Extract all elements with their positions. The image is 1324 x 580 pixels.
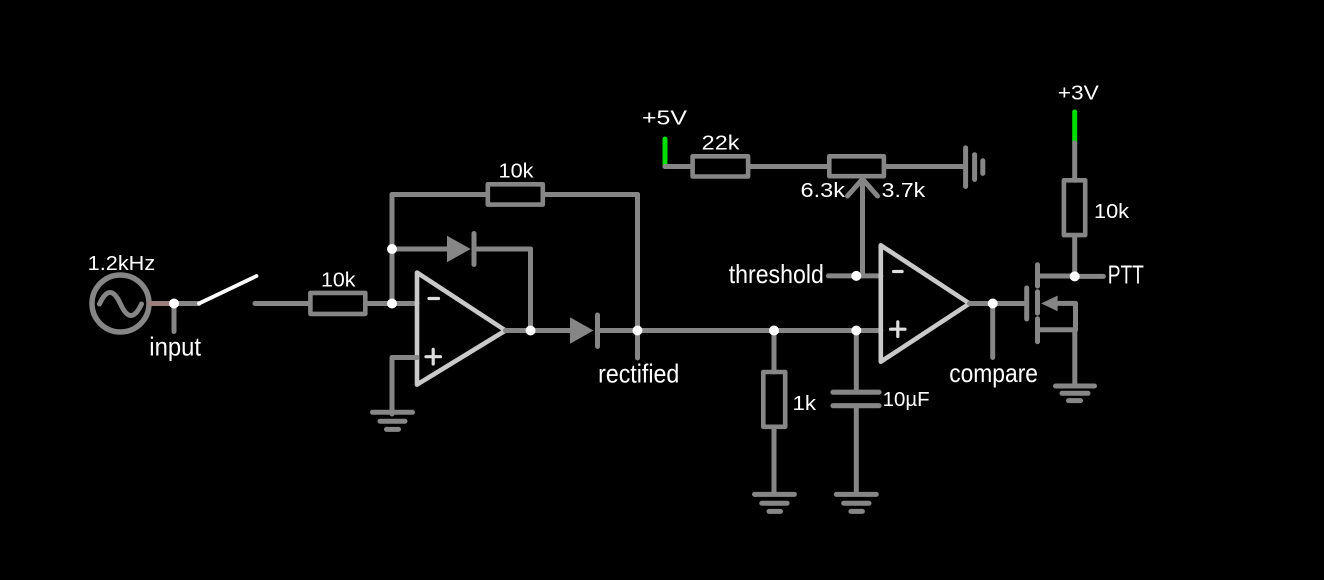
wire +5V to R4 — [665, 164, 690, 169]
wire inverting node to diode D1 — [392, 247, 447, 252]
svg-text:10k: 10k — [321, 270, 357, 292]
svg-text:22k: 22k — [702, 133, 741, 155]
node rectified stub — [635, 331, 640, 359]
ground G3 (below cap) — [836, 494, 876, 511]
Q1 drain stub — [1038, 274, 1075, 279]
node PTT stub — [1075, 274, 1104, 279]
node input stub — [172, 304, 177, 332]
transistor Q1 (n-MOSFET) gate plate — [1024, 288, 1029, 319]
resistor R3 1k — [763, 372, 785, 427]
wire V1 to input node (slight negative voltage tint) — [150, 301, 172, 306]
svg-text:3.7k: 3.7k — [882, 180, 927, 202]
ground G1 (U1 +) — [373, 412, 413, 429]
U2 minus sign — [894, 270, 903, 273]
resistor R1 10k — [310, 293, 365, 314]
wire R1 to inverting node — [367, 301, 417, 306]
wire feedback top right — [545, 192, 638, 197]
wire threshold node to U2 inverting input — [856, 273, 881, 278]
rail +3V green post — [1072, 112, 1077, 143]
node dot U1 output — [526, 326, 536, 336]
capacitor C1 10uF — [833, 392, 879, 406]
node dot PTT — [1070, 271, 1080, 281]
wire Q1 source to ground — [1072, 330, 1077, 384]
svg-text:+5V: +5V — [642, 107, 688, 129]
svg-text:PTT: PTT — [1108, 259, 1144, 289]
svg-text:threshold: threshold — [729, 259, 824, 289]
voltage source V1 1.2kHz — [92, 275, 149, 332]
wire R4 to potentiometer — [750, 164, 827, 169]
node dot input — [169, 299, 179, 309]
svg-text:input: input — [149, 332, 201, 362]
diode D1 (feedback clamp) — [447, 234, 474, 265]
svg-text:1k: 1k — [793, 393, 818, 415]
Q1 body arrow — [1041, 296, 1058, 312]
potentiometer wiper arrow — [848, 179, 878, 276]
ground G5 (rotated, right of pot) — [966, 148, 983, 187]
Q1 source stub — [1038, 327, 1076, 332]
resistor R4 22k — [693, 156, 749, 176]
ground G2 (below 1k) — [755, 494, 795, 511]
svg-text:rectified: rectified — [598, 358, 679, 388]
node dot cap junction — [851, 326, 861, 336]
U2 plus sign — [891, 322, 906, 337]
wire input node to switch pivot — [174, 301, 199, 306]
switch S1 (open lever) — [199, 276, 257, 304]
wire 1k top lead — [772, 331, 777, 373]
rail +5V green post — [663, 139, 668, 167]
node dot inverting input — [387, 299, 397, 309]
wire U2 output to MOSFET gate — [970, 301, 1025, 306]
wire 1k bottom lead — [772, 428, 777, 493]
wire D1 to corner — [476, 247, 531, 252]
ground G4 (below Q1) — [1056, 386, 1095, 401]
U1 minus sign — [429, 297, 439, 300]
Q1 body wire — [1058, 303, 1076, 329]
wire pot right to ground G5 — [886, 164, 963, 169]
wire R5 to PTT node / MOSFET drain — [1072, 236, 1077, 277]
potentiometer P1 body — [829, 156, 884, 176]
svg-text:6.3k: 6.3k — [801, 180, 847, 202]
svg-text:+3V: +3V — [1058, 83, 1100, 105]
wire switch to R1 — [255, 301, 308, 306]
svg-text:1.2kHz: 1.2kHz — [88, 253, 156, 275]
resistor R5 10k — [1064, 180, 1085, 235]
wire rectified rail (D2 to op-amp U2 +) — [600, 328, 881, 333]
op-amp U2 (comparator) — [881, 245, 970, 361]
node compare stub — [990, 304, 995, 358]
node threshold stub — [828, 273, 856, 278]
wire +3V to R5 — [1072, 143, 1077, 180]
node dot inverting top (D1) — [387, 244, 397, 254]
wire corner down to op-amp output — [528, 249, 533, 331]
node dot rectified — [633, 326, 643, 336]
wire inverting node vertical (feedback left leg) — [390, 195, 395, 304]
op-amp U1 — [417, 273, 506, 385]
wire feedback right vertical to rectified node — [635, 195, 640, 331]
U1 plus sign — [426, 349, 441, 364]
node dot threshold — [851, 271, 861, 281]
svg-text:10µF: 10µF — [883, 389, 930, 411]
resistor R2 10k feedback — [488, 184, 543, 204]
Q1 channel dashes — [1035, 265, 1040, 342]
diode D2 (series rectifier) — [570, 315, 598, 347]
wire feedback top left — [392, 192, 486, 197]
node dot compare — [988, 299, 998, 309]
svg-text:compare: compare — [949, 358, 1038, 388]
wire cap bottom lead — [854, 408, 859, 492]
svg-text:10k: 10k — [499, 161, 535, 183]
node dot 1k junction — [769, 326, 779, 336]
wire cap top lead — [854, 331, 859, 390]
svg-text:10k: 10k — [1094, 201, 1130, 223]
wire U1 output — [506, 328, 571, 333]
wire U1 noninverting lead — [392, 358, 417, 415]
